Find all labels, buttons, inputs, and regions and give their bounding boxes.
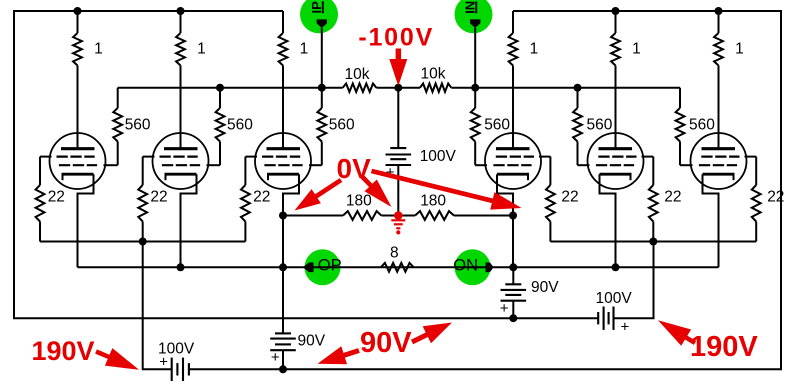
svg-text:560: 560 — [484, 117, 510, 134]
resistor 1 (plate resistor of V6) — [714, 11, 744, 148]
svg-text:-100V: -100V — [358, 23, 434, 51]
svg-text:+: + — [621, 318, 630, 335]
svg-text:560: 560 — [227, 117, 253, 134]
svg-text:560: 560 — [329, 117, 355, 134]
label 90V (red) with two arrows — [318, 323, 453, 365]
wire output bus (OP-ON line) — [78, 266, 719, 268]
tube V4 (tetrode) — [485, 133, 541, 189]
resistor 560 (screen resistor of V3) — [309, 88, 355, 166]
wire line3 right segment + riser to right 22-bus — [614, 242, 654, 319]
label 190V right (red) with arrow — [658, 320, 758, 363]
tube V3 (tetrode) — [255, 133, 311, 189]
svg-text:1: 1 — [530, 41, 539, 58]
svg-text:180: 180 — [420, 193, 446, 210]
resistor 1 (plate resistor of V4) — [509, 11, 539, 148]
terminal OP (output P) — [303, 249, 342, 285]
battery 90V left — [270, 267, 326, 369]
resistor 560 (screen resistor of V5) — [573, 88, 613, 166]
node grid bus / IN input — [471, 84, 479, 92]
svg-text:+: + — [500, 300, 509, 317]
resistor 22 (grid resistor of V2) — [138, 157, 167, 242]
label 190V left (red) with arrow — [32, 336, 140, 370]
battery 100V center (bias) — [386, 88, 457, 216]
battery 100V bottom left — [158, 341, 195, 382]
node grid bus / IP input — [318, 84, 326, 92]
ground (0V reference, red) — [391, 211, 405, 234]
wire cathode lead of V2 — [181, 174, 197, 267]
resistor 1 (plate resistor of V3) — [279, 11, 309, 148]
node 180 bus right / V4 cathode — [509, 212, 517, 220]
svg-text:100V: 100V — [596, 290, 633, 307]
wire cathode lead of V3 — [283, 174, 299, 267]
node grid bus / 560 of V2 — [216, 84, 224, 92]
svg-text:1: 1 — [197, 41, 206, 58]
svg-text:22: 22 — [48, 189, 65, 206]
resistor 10k left — [343, 66, 377, 92]
node top bus / V1 plate — [74, 7, 82, 15]
svg-text:ON: ON — [453, 257, 478, 275]
svg-text:1: 1 — [94, 41, 103, 58]
svg-text:1: 1 — [300, 41, 309, 58]
node top bus / V5 plate — [612, 7, 620, 15]
wire 180 bus — [283, 215, 343, 217]
resistor 1 (plate resistor of V2) — [176, 11, 206, 148]
wire grid bus (10k node) — [118, 87, 343, 89]
wire cathode lead of V1 — [78, 174, 94, 267]
svg-text:22: 22 — [767, 189, 784, 206]
wire cathode lead of V6 — [703, 174, 719, 267]
resistor 560 (screen resistor of V1) — [104, 88, 151, 166]
tube V6 (tetrode) — [691, 133, 747, 189]
svg-text:100V: 100V — [420, 148, 457, 165]
terminal IN (input N) — [455, 0, 493, 88]
svg-text:1: 1 — [632, 41, 641, 58]
svg-text:560: 560 — [689, 117, 715, 134]
tube V5 (tetrode) — [588, 133, 644, 189]
node output bus / V5 cathode — [612, 263, 620, 271]
node top bus / V2 plate — [177, 7, 185, 15]
svg-text:OP: OP — [318, 257, 342, 275]
resistor 22 (grid resistor of V5) — [642, 157, 682, 242]
svg-text:+: + — [271, 349, 280, 366]
terminal ON (output N) — [453, 249, 493, 285]
svg-text:90V: 90V — [298, 332, 326, 349]
node output bus / V4 cathode / 90V battery — [509, 263, 517, 271]
svg-text:560: 560 — [125, 117, 151, 134]
resistor 560 (screen resistor of V2) — [207, 88, 254, 166]
resistor 560 (screen resistor of V4) — [471, 88, 511, 166]
node 22-bus right / riser — [649, 238, 657, 246]
node grid bus / bias battery (-100V node) — [394, 84, 402, 92]
wire top bus right + right border + bottom bus — [189, 11, 781, 369]
svg-text:190V: 190V — [32, 336, 95, 366]
wire top bus left + left border + line3 (B+ rail) — [14, 11, 598, 318]
resistor 22 (grid resistor of V6) — [745, 157, 785, 242]
resistor 180 right — [415, 193, 454, 220]
svg-text:180: 180 — [346, 193, 372, 210]
svg-text:10k: 10k — [421, 66, 446, 83]
node output bus / V3 cathode / 90V battery — [279, 263, 287, 271]
svg-text:22: 22 — [664, 189, 681, 206]
svg-text:190V: 190V — [690, 331, 758, 363]
resistor 22 (grid resistor of V1) — [36, 157, 65, 242]
resistor 1 (plate resistor of V1) — [73, 11, 103, 148]
svg-text:1: 1 — [735, 41, 744, 58]
node output bus / V2 cathode — [177, 263, 185, 271]
tube V2 (tetrode) — [153, 133, 209, 189]
node grid bus / 560 of V5 — [574, 84, 582, 92]
wire 22-bus right — [550, 241, 756, 243]
node top bus / V6 plate — [715, 7, 723, 15]
node 180 bus left / V3 cathode — [279, 212, 287, 220]
resistor 1 (plate resistor of V5) — [611, 11, 641, 148]
svg-text:560: 560 — [587, 117, 613, 134]
battery 90V right — [500, 267, 559, 318]
tube V1 (tetrode) — [50, 133, 106, 189]
wire 22-bus left — [40, 241, 245, 243]
svg-text:10k: 10k — [345, 66, 370, 83]
resistor 560 (screen resistor of V6) — [676, 88, 716, 166]
resistor 22 (grid resistor of V3) — [241, 157, 270, 242]
label 0V (red) with three arrows — [295, 153, 522, 211]
label -100V (red) with arrow to bias node — [358, 23, 434, 86]
resistor 10k right — [420, 66, 451, 92]
battery 100V bottom right — [596, 290, 633, 335]
svg-text:90V: 90V — [531, 279, 559, 296]
resistor 8 (load between OP and ON) — [381, 245, 414, 272]
wire cathode lead of V4 — [497, 174, 513, 267]
wire cathode lead of V5 — [600, 174, 616, 267]
wire bottom bus left stub + riser to left 22-bus — [143, 242, 172, 370]
resistor 180 left — [343, 193, 381, 220]
svg-text:22: 22 — [561, 189, 578, 206]
node line3 / 90V battery — [509, 314, 517, 322]
svg-text:100V: 100V — [158, 341, 195, 358]
svg-text:8: 8 — [390, 245, 399, 262]
node bottom bus / 90V battery — [279, 365, 287, 373]
svg-text:22: 22 — [253, 189, 270, 206]
terminal IP (input P) — [300, 0, 338, 88]
node 22-bus left / riser — [139, 238, 147, 246]
svg-text:90V: 90V — [360, 327, 412, 359]
resistor 22 (grid resistor of V4) — [539, 157, 579, 242]
svg-text:22: 22 — [150, 189, 167, 206]
